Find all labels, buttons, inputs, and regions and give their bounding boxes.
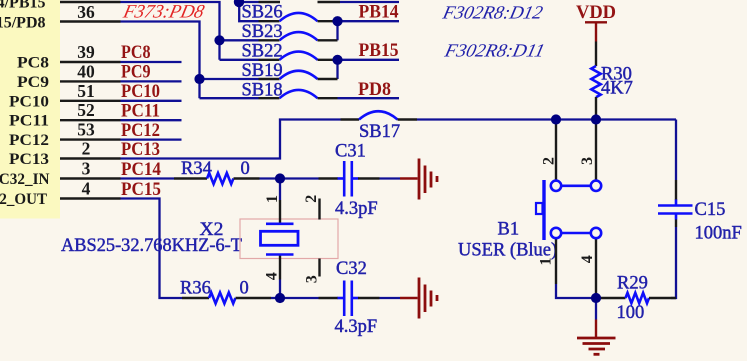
svg-text:PC13: PC13 [9,151,49,168]
svg-text:A15/PD8: A15/PD8 [0,15,46,32]
wire PC13 to SB17 [121,120,341,159]
svg-text:PC11: PC11 [121,101,160,121]
crystal symbol plates and body [266,223,294,226]
junction PB15 [332,55,342,65]
wire R36 to node OSC32_OUT [271,297,280,299]
svg-text:4: 4 [579,255,596,263]
pin 40 (PC9) [60,80,121,82]
svg-text:B1: B1 [498,220,520,240]
svg-text:0: 0 [240,279,249,299]
svg-text:0: 0 [241,159,250,179]
wire node to C15 top [675,120,677,181]
wire C15 bottom to R29 [671,227,676,298]
ground (C31) [400,159,437,200]
svg-text:2: 2 [540,157,557,165]
junction top row [234,0,244,7]
svg-text:4.3pF: 4.3pF [335,317,378,337]
svg-text:SB26: SB26 [242,3,283,23]
wire PC14 to R34 [121,177,175,179]
svg-text:4: 4 [82,179,91,199]
svg-text:PC13: PC13 [121,140,160,160]
crystal pin 1 [279,179,281,201]
svg-text:VDD: VDD [576,3,616,23]
junction at PD8/SB19 [194,74,204,84]
junction R29/ground [591,293,601,303]
svg-text:F373:PD8: F373:PD8 [120,2,206,23]
pin 36 (15/PD8) [60,20,121,22]
svg-text:ABS25-32.768KHZ-6-T: ABS25-32.768KHZ-6-T [61,236,242,256]
svg-text:39: 39 [77,42,95,62]
crystal pin 4 [279,255,281,280]
svg-text:3: 3 [303,275,320,283]
junction OSC32_IN node [275,173,285,183]
svg-text:1: 1 [537,258,554,266]
wire SB18 out to PD8 [338,97,400,99]
wire node to C32 [280,297,319,299]
svg-text:USER (Blue): USER (Blue) [458,241,557,261]
svg-text:R36: R36 [180,279,211,299]
ground (C32) [400,278,437,319]
pin 35 (4/PB15) [60,1,121,3]
wire top net vertical through dot [239,0,258,21]
crystal pin 3 (NC) [318,259,320,277]
wire branch to SB23 [220,39,259,41]
wire SB22 out to PB15 [338,59,400,61]
svg-text:PC8: PC8 [121,43,151,63]
svg-text:52: 52 [77,100,95,120]
svg-text:PB14: PB14 [359,3,399,23]
wire branch to SB22 [220,59,259,61]
svg-text:C15: C15 [695,200,726,220]
pin 52 (PC11) [60,119,121,121]
svg-text:53: 53 [77,120,95,140]
svg-text:PC8: PC8 [17,55,49,72]
wire branch to SB19 [200,78,259,80]
pin 4 (OSC32_OUT) [60,197,121,199]
button pin 1 [555,239,557,285]
wire SB26 out to PB14 [338,20,400,22]
wire top net stub right [239,1,258,3]
svg-text:100: 100 [617,303,645,323]
wire C31 to ground [380,177,401,179]
wire SB19 out up [336,60,338,79]
wire C32 to ground [380,297,401,299]
wire button pin1 to bottom node [556,284,596,298]
wire PC12 [121,138,182,140]
crystal pin 2 (NC) [318,199,320,220]
wire bottom node to ground stub [595,298,597,320]
svg-text:1: 1 [264,195,281,203]
wire node to C31 [280,177,319,179]
wire pin35 row to corner [121,2,220,60]
button contacts and actuator [536,180,601,240]
button pin 4 [595,239,597,299]
IC U1 body (yellow block, cropped at left) [0,0,60,219]
junction button pin2 [551,114,561,124]
svg-text:PC12: PC12 [121,121,160,141]
svg-text:PC11: PC11 [9,113,49,130]
svg-text:F302R8:D12: F302R8:D12 [440,3,545,24]
wire top row to x399 [340,1,399,3]
svg-text:40: 40 [77,61,95,81]
ground (bottom, under button) [577,320,616,355]
svg-text:SB17: SB17 [359,122,400,142]
svg-text:PC14: PC14 [121,160,161,180]
svg-text:PC12: PC12 [9,132,49,149]
svg-text:51: 51 [77,81,95,101]
junction OSC32_OUT node [275,293,285,303]
svg-text:SB23: SB23 [242,22,283,42]
net label F302R8:D11 (blue italic) [442,41,547,62]
svg-text:C31: C31 [335,142,366,162]
svg-text:PC10: PC10 [9,93,49,110]
svg-text:36: 36 [77,2,95,22]
svg-text:14/PB15: 14/PB15 [0,0,46,12]
svg-text:OSC32_OUT: OSC32_OUT [0,191,47,208]
junction PB14 [332,16,342,26]
svg-text:C32: C32 [336,259,367,279]
wire pin36 PD8 to corner [121,22,200,99]
wire PC11 [121,119,182,121]
svg-text:PB15: PB15 [359,41,399,61]
wire PC15 down to R36 [121,199,183,299]
wire SB17 out to button node [417,118,676,120]
junction at SB23 branch [214,35,224,45]
wire SB23 out up [336,21,338,40]
svg-text:4.3pF: 4.3pF [335,199,378,219]
svg-text:100nF: 100nF [695,224,742,244]
svg-text:2: 2 [82,139,91,159]
wire PC10 [121,100,182,102]
svg-text:3: 3 [82,159,91,179]
net label F373:PD8 (red italic) [120,2,206,23]
svg-text:3: 3 [579,157,596,165]
pin 39 (PC8) [60,61,121,63]
pin 2 (PC13) [60,157,121,159]
svg-text:PD8: PD8 [358,80,391,100]
wire PC8 [121,61,182,63]
svg-text:2: 2 [303,195,320,203]
svg-text:PC9: PC9 [17,74,49,91]
svg-text:OSC32_IN: OSC32_IN [0,171,50,188]
pin 51 (PC10) [60,100,121,102]
svg-text:4: 4 [263,272,280,280]
pin 3 (OSC32_IN) [60,177,121,179]
button pin 2 [555,120,557,181]
svg-text:PC15: PC15 [121,180,161,200]
svg-text:F302R8:D11: F302R8:D11 [442,41,547,62]
wire R34 to node OSC32_IN [260,177,281,179]
svg-text:PC10: PC10 [121,82,160,102]
junction button pin3 [591,114,601,124]
wire branch to SB18 [200,97,259,99]
solder bridge top row stubs (cropped) [259,1,281,3]
pin 53 (PC12) [60,138,121,140]
svg-text:PC9: PC9 [121,63,151,83]
button pin 3 [595,120,597,181]
svg-text:SB22: SB22 [242,42,283,62]
net label F302R8:D12 (blue italic) [440,3,545,24]
wire PC9 [121,80,182,82]
svg-text:4K7: 4K7 [601,79,633,99]
